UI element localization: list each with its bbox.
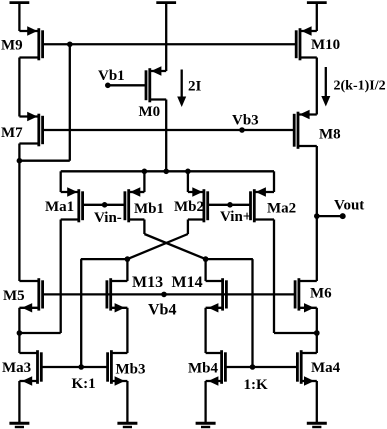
svg-text:Mb1: Mb1	[134, 201, 164, 217]
svg-text:2(k-1)I/2: 2(k-1)I/2	[334, 79, 386, 94]
svg-text:Vout: Vout	[334, 198, 364, 214]
svg-text:Ma2: Ma2	[267, 201, 296, 217]
svg-text:Vin-: Vin-	[94, 210, 122, 226]
svg-text:2I: 2I	[188, 79, 202, 95]
svg-text:Mb3: Mb3	[116, 362, 146, 378]
svg-text:M8: M8	[319, 127, 341, 143]
svg-text:1:K: 1:K	[244, 377, 268, 393]
svg-text:Ma1: Ma1	[45, 199, 74, 215]
svg-text:Vin+: Vin+	[220, 209, 251, 225]
svg-text:M6: M6	[310, 286, 332, 302]
svg-text:Vb4: Vb4	[148, 302, 176, 319]
svg-text:Mb2: Mb2	[174, 199, 204, 215]
svg-text:M0: M0	[139, 104, 161, 120]
svg-text:Mb4: Mb4	[188, 361, 219, 377]
svg-text:Vb3: Vb3	[232, 113, 259, 129]
svg-text:M10: M10	[311, 37, 340, 53]
svg-text:M5: M5	[3, 288, 25, 304]
svg-text:Ma3: Ma3	[2, 360, 31, 376]
svg-text:M14: M14	[172, 274, 203, 291]
svg-text:Vb1: Vb1	[98, 68, 125, 84]
svg-text:M13: M13	[132, 274, 163, 291]
svg-text:Ma4: Ma4	[311, 360, 341, 376]
svg-text:M7: M7	[1, 125, 23, 141]
svg-text:M9: M9	[1, 38, 23, 54]
svg-text:K:1: K:1	[72, 376, 96, 392]
